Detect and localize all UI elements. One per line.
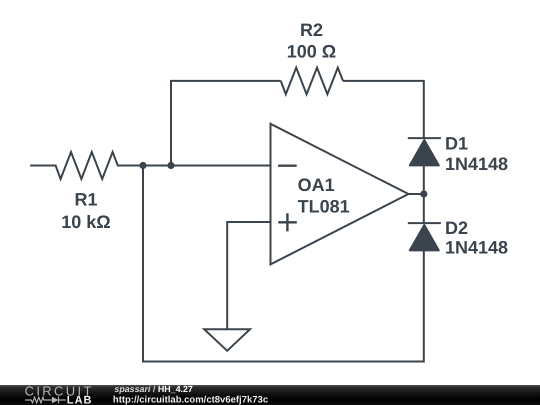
svg-text:R1: R1 bbox=[74, 190, 97, 210]
wire node A to op-amp inverting input bbox=[143, 165, 271, 167]
svg-text:1N4148: 1N4148 bbox=[445, 237, 508, 257]
op-amp inverting input minus sign bbox=[278, 164, 297, 166]
wire top rail right segment down to D1 cathode bbox=[343, 81, 424, 138]
diode D2 body bbox=[410, 225, 439, 250]
wire op-amp output to right rail bbox=[409, 193, 424, 195]
wire op-amp non-inverting input to ground bbox=[227, 222, 270, 329]
svg-text:TL081: TL081 bbox=[298, 196, 350, 216]
svg-text:OA1: OA1 bbox=[298, 175, 335, 195]
footer bar bbox=[0, 385, 540, 405]
diode D1 body bbox=[410, 140, 439, 165]
wire node A down to bottom rail, across, and up to D2 anode bbox=[143, 166, 424, 362]
diode D1 cathode bar bbox=[408, 137, 441, 139]
svg-text:10 kΩ: 10 kΩ bbox=[61, 212, 110, 232]
diode D2 cathode bar bbox=[408, 222, 441, 224]
wire node A up to top rail, left segment bbox=[171, 81, 281, 166]
svg-text:http://circuitlab.com/ct8v6efj: http://circuitlab.com/ct8v6efj7k73c bbox=[113, 394, 268, 404]
resistor R2 bbox=[281, 68, 343, 95]
op-amp non-inverting input plus sign bbox=[278, 213, 297, 231]
svg-text:1N4148: 1N4148 bbox=[445, 154, 508, 174]
logo resistor glyph bbox=[25, 396, 66, 403]
logo diode lead bbox=[59, 399, 66, 401]
resistor R1 bbox=[30, 152, 143, 179]
wire between D1 and D2 bbox=[423, 165, 425, 223]
svg-text:R2: R2 bbox=[300, 20, 323, 40]
op-amp U1 body bbox=[271, 124, 409, 265]
node A junction dot 1 bbox=[139, 162, 146, 169]
svg-text:LAB: LAB bbox=[67, 394, 93, 404]
svg-text:spassari / HH_4.27: spassari / HH_4.27 bbox=[114, 385, 193, 394]
node A junction dot 2 bbox=[167, 162, 174, 169]
svg-text:D2: D2 bbox=[445, 218, 468, 238]
ground bbox=[204, 329, 250, 351]
logo diode cathode bar bbox=[58, 396, 60, 403]
logo diode triangle bbox=[52, 396, 59, 403]
output node junction dot bbox=[420, 190, 427, 197]
svg-text:D1: D1 bbox=[445, 133, 468, 153]
svg-text:100 Ω: 100 Ω bbox=[287, 41, 336, 61]
